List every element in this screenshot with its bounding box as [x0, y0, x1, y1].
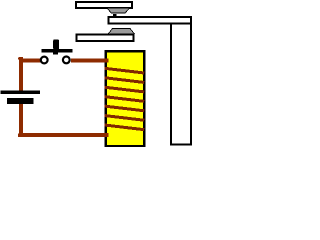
- coil winding turn 5: [105, 106, 145, 111]
- wire: battery - terminal down to bottom elbow: [19, 104, 23, 137]
- coil winding turn 2: [105, 78, 145, 83]
- push button plunger stem: [53, 39, 59, 50]
- coil winding turn 4: [105, 97, 145, 102]
- wire: bottom horizontal from battery to coil: [19, 133, 108, 137]
- battery negative plate (short thick bar): [7, 98, 34, 104]
- coil winding turn 3: [105, 87, 145, 92]
- push button right terminal: [63, 57, 70, 64]
- coil winding turn 1: [105, 68, 145, 73]
- wire joint nub at top-left elbow: [18, 58, 19, 60]
- wire: switch right terminal to coil: [71, 59, 109, 63]
- bottom contact pad (gray): [108, 28, 134, 33]
- top contact pad (gray): [107, 8, 129, 13]
- push button left terminal: [41, 57, 48, 64]
- bottom contact strip: [77, 34, 134, 41]
- relay armature contact nub: [113, 14, 116, 16]
- push button bar: [42, 49, 73, 53]
- wire: top-left horizontal elbow to switch left terminal: [19, 59, 40, 63]
- coil core (electromagnet solenoid, yellow with black border): [106, 51, 144, 146]
- coil winding turn 6: [105, 116, 145, 121]
- relay armature vertical bar: [171, 23, 191, 144]
- wire: left vertical from switch down to battery + terminal: [19, 57, 23, 91]
- coil winding turn 7: [105, 125, 145, 130]
- battery positive plate (long thin bar): [1, 91, 41, 95]
- top contact strip: [76, 2, 132, 8]
- wire joint nub at bottom-left elbow: [18, 133, 19, 137]
- push button lower nub: [53, 53, 58, 55]
- relay armature horizontal bar: [108, 17, 191, 23]
